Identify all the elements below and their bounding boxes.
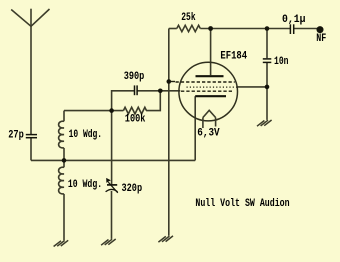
- wire top bus: [200, 28, 290, 30]
- 320p arrowhead: [106, 178, 111, 183]
- wire 320p drop: [111, 111, 113, 185]
- svg-text:EF184: EF184: [220, 51, 247, 63]
- svg-text:0,1µ: 0,1µ: [282, 14, 306, 26]
- junction 10n top: [265, 26, 270, 31]
- capacitor C4 10n plates: [263, 58, 272, 60]
- wire anode lead: [210, 29, 212, 76]
- capacitor C3 320p variable plates: [107, 184, 117, 186]
- ground G2: [101, 239, 116, 245]
- svg-text:10 Wdg.: 10 Wdg.: [68, 179, 102, 191]
- capacitor C2 390p branch: [112, 91, 134, 111]
- junction grid1: [167, 79, 172, 84]
- ground G1: [54, 240, 69, 246]
- wire 100k right to node B: [146, 91, 160, 111]
- junction coil tap: [62, 158, 67, 163]
- terminal NF: [317, 26, 324, 33]
- wire tank bus: [31, 159, 195, 161]
- resistor R2 100k zigzag: [123, 107, 146, 114]
- wire 25k left lead: [169, 28, 177, 30]
- wire 10n drop: [266, 29, 268, 59]
- cathode bar: [195, 95, 226, 97]
- inductor L2: [59, 160, 64, 240]
- 320p arrow: [108, 182, 118, 193]
- capacitor C1 27p plates: [26, 134, 37, 136]
- junction anode: [208, 26, 213, 31]
- inductor L1: [59, 111, 64, 161]
- tube U1 EF184 envelope: [179, 62, 238, 121]
- wire 0,1u right lead: [294, 28, 317, 30]
- grid g3 dashed: [181, 90, 233, 92]
- wire grid3 lead: [160, 90, 180, 92]
- ground G3: [158, 236, 173, 242]
- svg-text:NF: NF: [316, 33, 326, 45]
- svg-text:Null Volt SW Audion: Null Volt SW Audion: [195, 198, 289, 210]
- svg-text:390p: 390p: [124, 71, 145, 83]
- grid g1 dashed: [169, 81, 175, 83]
- anode plate bar: [196, 75, 224, 77]
- resistor R1 25k zigzag: [177, 25, 201, 31]
- wire 27p lead down: [30, 138, 32, 160]
- grid g2 dotted: [187, 86, 237, 88]
- capacitor C2 390p plates: [134, 85, 136, 95]
- ground G4: [257, 120, 272, 126]
- svg-text:100k: 100k: [125, 114, 146, 126]
- junction node A: [109, 108, 114, 113]
- svg-text:25k: 25k: [181, 12, 196, 24]
- junction 10n bottom: [265, 85, 270, 90]
- wire cathode leg: [194, 96, 196, 160]
- capacitor C5 0,1u plates: [289, 24, 291, 34]
- heater filament: [203, 110, 216, 128]
- wire grid2 right lead: [237, 86, 268, 88]
- svg-text:10 Wdg.: 10 Wdg.: [69, 129, 103, 141]
- svg-text:10n: 10n: [274, 56, 289, 68]
- svg-text:27p: 27p: [8, 129, 24, 141]
- junction node B: [158, 89, 163, 94]
- wire ground bus vertical: [168, 29, 170, 236]
- antenna: [11, 9, 49, 134]
- svg-text:6,3V: 6,3V: [197, 127, 220, 139]
- svg-text:320p: 320p: [122, 183, 143, 195]
- wire grid bus: [64, 110, 123, 112]
